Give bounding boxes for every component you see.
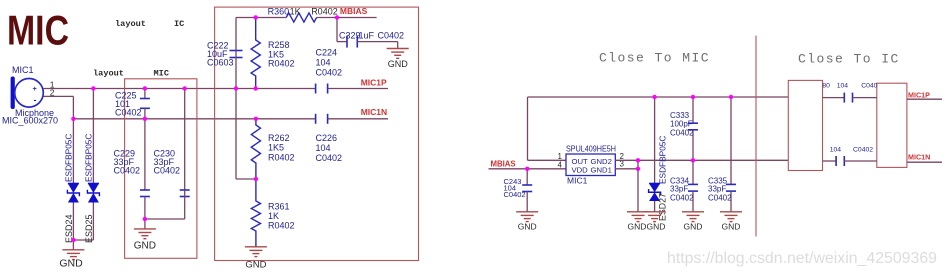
capacitor C229 bbox=[140, 119, 150, 219]
svg-text:ESD27: ESD27 bbox=[658, 193, 668, 221]
svg-text:104: 104 bbox=[830, 146, 842, 153]
svg-text:GND1: GND1 bbox=[591, 166, 612, 175]
svg-text:104: 104 bbox=[837, 82, 849, 89]
wire MIC1P row from C224 to label end bbox=[328, 88, 388, 90]
wire V1 corner to divider bbox=[236, 178, 256, 180]
wire MIC1N row from C226 to label end bbox=[328, 118, 388, 120]
wire C230 bottom bbox=[184, 197, 186, 220]
wire ESD27 from Row A bbox=[654, 97, 656, 184]
ground for ESD diodes bbox=[59, 240, 84, 270]
wire ESD25 to gnd rail bbox=[92, 203, 94, 241]
svg-text:R0402: R0402 bbox=[268, 153, 295, 163]
svg-text:ESDFBP05C: ESDFBP05C bbox=[84, 134, 94, 182]
wire MIC1N out bbox=[907, 161, 942, 163]
label layout IC (top) bbox=[115, 19, 184, 29]
node on MIC1P row at C225 bbox=[143, 86, 147, 90]
wire V1 row1 to divider tap bbox=[235, 89, 237, 180]
svg-text:33pF: 33pF bbox=[670, 185, 688, 194]
svg-text:+: + bbox=[33, 84, 38, 93]
label R361 bbox=[268, 202, 295, 231]
esd diode ESD27 symbol bbox=[649, 184, 661, 202]
box layout IC bbox=[215, 7, 419, 260]
wire ESD24 from MIC1N row down bbox=[72, 119, 74, 184]
svg-text:MBIAS: MBIAS bbox=[491, 160, 516, 169]
wire C230 from MIC1P row bbox=[184, 89, 186, 191]
svg-text:80: 80 bbox=[822, 82, 830, 89]
label C230 bbox=[154, 149, 181, 176]
svg-text:ESD25: ESD25 bbox=[84, 214, 94, 243]
svg-text:C0402: C0402 bbox=[154, 166, 181, 176]
resistor R262 bbox=[251, 119, 260, 179]
svg-text:GND: GND bbox=[628, 221, 647, 231]
microphone MIC1 bbox=[2, 65, 58, 126]
label C222 bbox=[207, 41, 234, 68]
svg-text:Close To IC: Close To IC bbox=[798, 52, 900, 67]
resistor R361 bbox=[251, 179, 260, 247]
svg-text:C0402: C0402 bbox=[670, 129, 694, 138]
wire MBIAS row right bbox=[317, 17, 377, 19]
capacitor top between boxes bbox=[823, 93, 877, 103]
label C329 1uF C0402 bbox=[339, 31, 404, 41]
label R262 bbox=[268, 133, 295, 163]
svg-text:GND: GND bbox=[518, 221, 537, 231]
wire V1 to MIC1P row bbox=[235, 58, 237, 89]
wire OUT row (Row A) bbox=[528, 96, 790, 98]
node on MIC1P row at C230 bbox=[183, 86, 187, 90]
svg-text:GND: GND bbox=[388, 59, 409, 69]
svg-text:R0402: R0402 bbox=[268, 221, 295, 231]
resistor R258 bbox=[251, 18, 260, 89]
svg-text:layout: layout bbox=[93, 69, 124, 79]
node C229/C230 gnd junction bbox=[143, 217, 147, 221]
svg-text:C0402: C0402 bbox=[670, 194, 694, 203]
box close-to-IC right bbox=[877, 83, 907, 167]
svg-text:C226: C226 bbox=[316, 133, 338, 143]
label R258 bbox=[268, 40, 295, 69]
node on MBIAS row at C329 tap bbox=[335, 15, 339, 19]
svg-text:100pF: 100pF bbox=[670, 120, 693, 129]
label C243 bbox=[504, 177, 526, 199]
svg-text:ESDFBP05C: ESDFBP05C bbox=[658, 136, 668, 184]
label C226 bbox=[316, 133, 343, 163]
svg-text:R262: R262 bbox=[268, 133, 290, 143]
svg-text:MIC1P: MIC1P bbox=[908, 91, 930, 100]
capacitor C222 bbox=[230, 51, 243, 58]
svg-text:R0402: R0402 bbox=[268, 59, 295, 69]
wire OUT drop to pin1 bbox=[527, 97, 529, 160]
ground for chip gnd pins bbox=[627, 212, 649, 232]
ground for C334 bbox=[682, 212, 704, 232]
wire ESD24 to gnd rail bbox=[72, 203, 74, 241]
svg-text:C0402: C0402 bbox=[316, 153, 343, 163]
wire C230 to C229 gnd rail bbox=[145, 218, 185, 220]
node on MIC1N row at ESD24 bbox=[71, 117, 75, 121]
svg-text:GND: GND bbox=[134, 240, 156, 251]
ground for ESD27 bbox=[644, 212, 666, 232]
node on MIC1P row at ESD25 bbox=[91, 86, 95, 90]
op-amp U MIC1 (SPUL409HE5H) bbox=[566, 144, 616, 186]
svg-text:C040: C040 bbox=[861, 82, 877, 89]
wire ESD27 to gnd bbox=[654, 201, 656, 212]
node Row A at C335 bbox=[729, 95, 733, 99]
wire esd gnd rail bbox=[73, 239, 93, 241]
node Row A at C333 bbox=[691, 95, 695, 99]
capacitor C243 bbox=[522, 169, 532, 212]
ground for C329 bbox=[387, 49, 409, 69]
svg-text:Close To MIC: Close To MIC bbox=[599, 51, 710, 66]
svg-text:-: - bbox=[34, 95, 37, 105]
node on MIC1P row at V1 bbox=[234, 86, 238, 90]
label C229 bbox=[114, 149, 141, 176]
wire MIC1N row from corner to C226 bbox=[73, 118, 315, 120]
ground in layout MIC box bbox=[134, 219, 156, 251]
label C224 bbox=[316, 48, 343, 78]
svg-text:R361: R361 bbox=[268, 202, 290, 212]
node MBIAS/C243 bbox=[525, 167, 529, 171]
svg-text:GND: GND bbox=[722, 221, 741, 231]
node pin3 at gnd drop bbox=[636, 167, 640, 171]
capacitor C333 bbox=[688, 97, 698, 160]
svg-text:33pF: 33pF bbox=[708, 185, 726, 194]
svg-text:R360: R360 bbox=[268, 7, 290, 17]
capacitor C225 bbox=[140, 89, 150, 119]
svg-text:MIC1: MIC1 bbox=[567, 176, 588, 186]
capacitor C335 bbox=[726, 97, 736, 212]
wire MIC1P row from mic pin1 to C224 bbox=[44, 88, 316, 90]
svg-text:MIC1N: MIC1N bbox=[908, 153, 930, 162]
svg-text:VDD: VDD bbox=[572, 166, 589, 175]
svg-text:C0402: C0402 bbox=[378, 31, 405, 41]
capacitor bottom between boxes bbox=[823, 156, 877, 166]
wire MBIAS tap down bbox=[336, 18, 338, 42]
capacitor C224 plates bbox=[316, 84, 328, 94]
svg-text:C0402: C0402 bbox=[115, 108, 142, 118]
svg-text:C0603: C0603 bbox=[207, 58, 234, 68]
svg-text:C224: C224 bbox=[316, 48, 338, 58]
svg-text:SPUL409HE5H: SPUL409HE5H bbox=[566, 144, 616, 154]
wire MBIAS to chip pin4 bbox=[489, 168, 567, 170]
svg-text:https://blog.csdn.net/weixin_4: https://blog.csdn.net/weixin_42509369 bbox=[667, 250, 937, 267]
node Row B at gnd drop bbox=[636, 158, 640, 162]
box close-to-IC left bbox=[788, 80, 822, 170]
label C225 bbox=[115, 90, 142, 117]
svg-text:MIC1: MIC1 bbox=[12, 65, 34, 75]
ground for C243 bbox=[516, 212, 538, 232]
node on MIC1P row at R258 bbox=[254, 86, 258, 90]
esd diode ESD25 symbol bbox=[87, 184, 99, 203]
svg-text:1K5: 1K5 bbox=[268, 143, 284, 153]
svg-text:C0402: C0402 bbox=[708, 194, 732, 203]
wire C329 to gnd corner bbox=[397, 42, 399, 49]
svg-text:1uF: 1uF bbox=[359, 31, 375, 41]
svg-text:104: 104 bbox=[316, 58, 331, 68]
label 104 C0402 (bottom cap) bbox=[830, 146, 874, 153]
svg-text:R0402: R0402 bbox=[311, 7, 338, 17]
wire pin2 stub / Row B bbox=[615, 159, 789, 161]
svg-text:layout: layout bbox=[115, 19, 146, 29]
label R360 1K bbox=[268, 7, 301, 17]
label C333 bbox=[670, 111, 694, 138]
capacitor C226 plates bbox=[316, 114, 328, 124]
divider line between sections bbox=[755, 36, 757, 237]
svg-text:GND: GND bbox=[647, 221, 666, 231]
wire MIC1P out bbox=[907, 98, 942, 100]
node on MIC1N row at R262 bbox=[254, 117, 258, 121]
wire MBIAS row left bbox=[236, 17, 286, 19]
node esd gnd junction bbox=[71, 238, 75, 242]
label C335 bbox=[708, 177, 732, 203]
svg-text:R258: R258 bbox=[268, 40, 290, 50]
wire ESD25 from MIC1P row down bbox=[92, 89, 94, 184]
wire pin2 drop bbox=[72, 96, 74, 118]
svg-text:MIC: MIC bbox=[7, 7, 69, 54]
wire mic pin2 stub bbox=[44, 95, 74, 97]
node Row B at C333/C334 bbox=[691, 158, 695, 162]
svg-text:MIC_600x270: MIC_600x270 bbox=[2, 116, 58, 126]
svg-text:GND: GND bbox=[684, 221, 703, 231]
svg-text:GND: GND bbox=[59, 258, 83, 270]
wire gnd drop at 638 bbox=[637, 160, 639, 212]
wire pin3 stub bbox=[615, 168, 638, 170]
svg-text:C329: C329 bbox=[339, 31, 361, 41]
svg-text:MIC: MIC bbox=[154, 69, 169, 79]
ground for C335 bbox=[720, 212, 742, 232]
box layout MIC bbox=[125, 79, 197, 258]
capacitor C334 bbox=[688, 160, 698, 212]
svg-text:4: 4 bbox=[558, 160, 563, 169]
wire pin1 stub bbox=[528, 159, 567, 161]
svg-text:MBIAS: MBIAS bbox=[340, 6, 368, 16]
capacitor C329 bbox=[337, 36, 398, 48]
ground below R361 bbox=[245, 247, 267, 271]
svg-text:MIC1N: MIC1N bbox=[361, 107, 387, 117]
resistor R360 bbox=[286, 13, 316, 22]
svg-text:C0402: C0402 bbox=[853, 146, 873, 153]
node on MBIAS row at R258 bbox=[254, 15, 258, 19]
node on MIC1N row at C225/C229 bbox=[143, 117, 147, 121]
svg-text:C0402: C0402 bbox=[316, 68, 343, 78]
node Row A at ESD27 bbox=[652, 95, 656, 99]
capacitor C230 bbox=[180, 190, 190, 197]
esd diode ESD24 symbol bbox=[67, 184, 79, 203]
node R262/R361 junction bbox=[254, 177, 258, 181]
svg-text:MIC1P: MIC1P bbox=[361, 77, 387, 87]
label 80 104 C040 (top cap) bbox=[822, 82, 877, 89]
svg-text:ESDFBP05C: ESDFBP05C bbox=[64, 134, 74, 182]
svg-text:C0402: C0402 bbox=[504, 190, 526, 199]
svg-text:GND: GND bbox=[245, 260, 266, 271]
svg-text:1K: 1K bbox=[268, 211, 279, 221]
svg-text:IC: IC bbox=[174, 19, 184, 29]
svg-text:C0402: C0402 bbox=[114, 166, 141, 176]
wire V1 top corner bbox=[235, 18, 237, 51]
svg-text:104: 104 bbox=[316, 143, 331, 153]
label C334 bbox=[670, 177, 694, 203]
svg-text:1K: 1K bbox=[290, 7, 301, 17]
